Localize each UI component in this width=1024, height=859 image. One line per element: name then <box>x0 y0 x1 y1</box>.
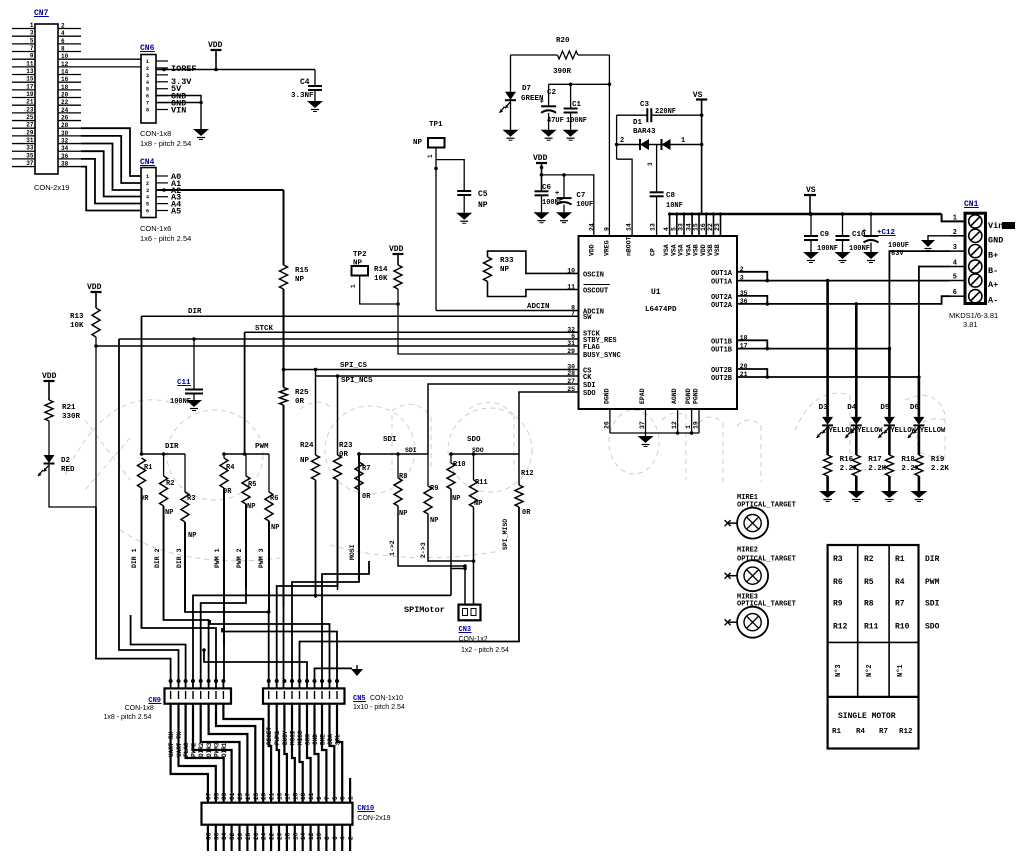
wire CN10 bottom pin 18 <box>286 825 288 851</box>
svg-text:R2: R2 <box>166 480 174 488</box>
svg-text:R24: R24 <box>300 442 314 450</box>
svg-text:35: 35 <box>26 152 34 159</box>
svg-text:38: 38 <box>205 832 212 840</box>
svg-text:19: 19 <box>26 91 34 98</box>
terminal CN1 pin 1 Vin <box>969 215 982 228</box>
svg-text:24: 24 <box>61 107 69 114</box>
svg-text:33: 33 <box>26 145 34 152</box>
svg-text:28: 28 <box>61 122 69 129</box>
wire R11 to CN3 <box>473 507 475 605</box>
svg-text:R11: R11 <box>864 622 879 631</box>
svg-text:PWM: PWM <box>925 578 940 587</box>
svg-text:CON-2x19: CON-2x19 <box>34 183 69 192</box>
wire CN7 pin 9 <box>12 58 35 60</box>
wire STBY_RES net to pin 6 <box>119 338 579 340</box>
svg-text:3: 3 <box>146 73 149 79</box>
svg-text:AGND: AGND <box>671 388 678 404</box>
svg-text:nBOOT: nBOOT <box>626 236 633 256</box>
svg-text:DIR: DIR <box>165 443 179 451</box>
wire DIR2 to CN9 pin6 <box>164 506 209 688</box>
wire CN7 pin 29 <box>12 135 35 137</box>
svg-text:25: 25 <box>253 792 260 800</box>
wire TP1 to C5 <box>436 160 464 191</box>
wire stub to CN5 pin8 <box>322 561 369 688</box>
wire CN7 pin 11 <box>12 66 35 68</box>
svg-text:14: 14 <box>61 69 69 76</box>
svg-text:N°1: N°1 <box>896 664 905 677</box>
svg-text:D1: D1 <box>633 119 643 127</box>
svg-text:OSCIN: OSCIN <box>583 271 604 279</box>
svg-text:10: 10 <box>61 53 69 60</box>
wire CN7 pin 8 <box>58 51 81 53</box>
wire ADCIN vertical <box>435 168 437 310</box>
wire PWM2 to CN9 pin5 <box>201 504 246 688</box>
wire CN10 bottom pin 14 <box>302 825 304 851</box>
wire CN7 pin 5 <box>12 43 35 45</box>
svg-text:3: 3 <box>647 162 654 166</box>
svg-text:NP: NP <box>478 201 488 210</box>
wire CN7 pin 30 <box>58 135 81 137</box>
wire CN7 pin 2 <box>58 28 81 30</box>
junction CN5 pin 2 <box>275 679 279 683</box>
svg-text:SINGLE MOTOR: SINGLE MOTOR <box>838 712 896 721</box>
svg-text:390R: 390R <box>553 68 572 76</box>
svg-text:VDD: VDD <box>87 283 102 292</box>
svg-text:47UF: 47UF <box>547 117 564 125</box>
svg-text:220NF: 220NF <box>655 108 676 116</box>
svg-text:1x8 - pitch 2.54: 1x8 - pitch 2.54 <box>140 139 191 148</box>
ground CN6 GND <box>193 129 209 136</box>
svg-text:R20: R20 <box>556 37 570 45</box>
svg-text:NP: NP <box>500 266 510 274</box>
wire CN10 bottom pin 30 <box>238 825 240 851</box>
junction CN9 pin 2 <box>177 679 181 683</box>
svg-text:DIR: DIR <box>188 308 202 316</box>
junction CN9 pin 8 <box>221 679 225 683</box>
svg-text:NP: NP <box>430 517 438 525</box>
wire CN7 pin 32 <box>58 143 81 145</box>
wire SDI net from pin 27 <box>428 384 579 454</box>
wire CN7 pin 20 <box>58 97 81 99</box>
svg-text:R7: R7 <box>362 465 370 473</box>
svg-text:D6: D6 <box>910 404 920 412</box>
svg-text:6: 6 <box>146 209 149 215</box>
wire CN9 pin 7 to CN10 <box>216 704 255 803</box>
wire SDA route to CN5 pin9 <box>210 620 330 688</box>
svg-text:15: 15 <box>292 792 299 800</box>
svg-text:27: 27 <box>26 122 34 129</box>
wire CN7 pin 17 <box>12 89 35 91</box>
svg-text:R18: R18 <box>901 456 915 464</box>
LED D6 YELLOW <box>918 377 921 417</box>
svg-text:9: 9 <box>30 53 34 60</box>
wire CN7 pin 12 <box>58 66 141 68</box>
svg-text:29: 29 <box>237 792 244 800</box>
wire CN10 bottom pin 22 <box>270 825 272 851</box>
svg-text:TP2: TP2 <box>353 251 367 259</box>
svg-text:A-: A- <box>988 296 998 306</box>
wire CN10 bottom pin 12 <box>310 825 312 851</box>
svg-text:TP1: TP1 <box>429 121 443 129</box>
svg-text:26: 26 <box>61 115 69 122</box>
wire D2 to FLAG <box>49 346 96 507</box>
pin 11 OSCOUT overline <box>584 284 611 286</box>
wire CN9 pin 1 to CN10 <box>171 704 208 803</box>
ground C7 <box>556 212 572 219</box>
wire CN7 to CN4 A3 <box>81 151 141 196</box>
ground CN1 GND terminal <box>928 236 965 240</box>
LED D5 YELLOW <box>888 349 891 417</box>
wire CN5 pin 6 to CN10 <box>307 704 311 803</box>
wire CN10 bottom pin 34 <box>223 825 225 851</box>
svg-text:CON-1x10: CON-1x10 <box>370 695 403 702</box>
svg-text:R23: R23 <box>339 442 353 450</box>
svg-text:VDD: VDD <box>533 154 548 163</box>
svg-text:100NF: 100NF <box>817 245 838 253</box>
svg-text:SDO: SDO <box>925 622 940 631</box>
wire R25 to CN5 pin3 <box>283 405 285 688</box>
svg-text:NP: NP <box>300 457 310 465</box>
wire CN5 pin 4 to CN10 <box>292 704 295 803</box>
svg-text:31: 31 <box>229 792 236 800</box>
svg-text:8: 8 <box>146 108 149 114</box>
ground U1 EPAD <box>645 433 647 436</box>
svg-text:2: 2 <box>348 836 355 840</box>
svg-text:L6474PD: L6474PD <box>645 306 677 314</box>
svg-text:PWM 1: PWM 1 <box>214 548 221 568</box>
svg-text:33: 33 <box>221 792 228 800</box>
svg-text:3: 3 <box>30 30 34 37</box>
svg-text:NP: NP <box>247 503 255 511</box>
svg-text:BAR43: BAR43 <box>633 128 656 136</box>
svg-text:34: 34 <box>61 145 69 152</box>
svg-text:R25: R25 <box>295 389 309 397</box>
svg-text:SDI: SDI <box>405 447 417 454</box>
svg-text:N°3: N°3 <box>834 664 843 677</box>
svg-text:15: 15 <box>26 76 34 83</box>
wire SDO net from pin 25 <box>519 392 579 454</box>
svg-text:OUT1B: OUT1B <box>711 338 733 346</box>
wire CN7 pin 36 <box>58 158 81 160</box>
svg-text:20: 20 <box>61 92 69 99</box>
svg-text:2: 2 <box>146 66 149 72</box>
wire CN7 pin 4 <box>58 35 81 37</box>
svg-text:+: + <box>862 228 866 236</box>
wire OUT1B to B+ <box>737 340 767 348</box>
svg-text:10NF: 10NF <box>666 202 683 210</box>
wire R23 to CN5 pin2 <box>277 480 338 688</box>
wire CN7 pin 25 <box>12 120 35 122</box>
svg-text:3: 3 <box>146 188 149 194</box>
svg-text:CP: CP <box>650 248 657 256</box>
svg-text:SDO: SDO <box>467 436 481 444</box>
wire FLAG net to pin 31 <box>96 345 579 347</box>
svg-text:1: 1 <box>30 22 34 29</box>
svg-text:17: 17 <box>26 83 34 90</box>
junction CN5 pin 3 <box>282 679 286 683</box>
svg-text:5: 5 <box>146 87 149 93</box>
svg-text:VSA: VSA <box>678 244 685 256</box>
svg-text:MKDS1/6-3.81: MKDS1/6-3.81 <box>949 311 998 320</box>
svg-text:B+: B+ <box>988 251 998 261</box>
svg-text:OSCOUT: OSCOUT <box>583 288 608 296</box>
svg-text:2.2K: 2.2K <box>868 465 887 473</box>
wire CN7 pin 1 <box>12 28 35 30</box>
wire CN7 pin 34 <box>58 150 81 152</box>
svg-text:1x2 - pitch 2.54: 1x2 - pitch 2.54 <box>461 647 509 654</box>
svg-text:R21: R21 <box>62 404 76 412</box>
svg-text:7: 7 <box>324 796 331 800</box>
terminal CN1 pin 4 B- <box>969 260 982 273</box>
svg-text:8: 8 <box>324 836 331 840</box>
svg-text:VIN: VIN <box>171 106 186 116</box>
ground C11 <box>186 400 202 407</box>
wire MOSI to CN5 pin4 <box>292 454 359 688</box>
svg-text:VSA: VSA <box>670 244 677 256</box>
svg-text:32: 32 <box>61 138 69 145</box>
svg-text:NP: NP <box>295 276 305 284</box>
wire CN9 pin 6 to CN10 <box>209 704 248 803</box>
junction CN9 pin 5 <box>199 679 203 683</box>
svg-text:12: 12 <box>308 832 315 840</box>
svg-text:DGND: DGND <box>603 388 610 404</box>
wire CN7 pin 7 <box>12 51 35 53</box>
svg-text:R5: R5 <box>864 578 874 587</box>
wire CN9 pin 4 to CN10 <box>193 704 232 803</box>
svg-text:1x6 - pitch 2.54: 1x6 - pitch 2.54 <box>140 234 191 243</box>
wire PWM3 to CN5 pin1 <box>268 521 270 688</box>
svg-text:NP: NP <box>452 495 460 503</box>
svg-text:36: 36 <box>61 153 69 160</box>
svg-text:30: 30 <box>237 832 244 840</box>
svg-text:30: 30 <box>61 130 69 137</box>
junction CN5 pin 10 <box>335 679 339 683</box>
junction CN9 pin 6 <box>207 679 211 683</box>
wire D7 anode <box>510 55 512 92</box>
svg-text:34: 34 <box>221 832 228 840</box>
svg-text:SDI: SDI <box>925 600 940 609</box>
wire SCL route to CN5 pin10 <box>222 628 337 688</box>
svg-text:23: 23 <box>261 792 268 800</box>
wire OUT2A to A- <box>737 296 767 304</box>
svg-text:FLAG: FLAG <box>583 344 600 352</box>
svg-text:OPTICAL_TARGET: OPTICAL_TARGET <box>737 600 796 608</box>
svg-text:32: 32 <box>229 832 236 840</box>
ground D6 <box>910 491 927 498</box>
svg-text:VSB: VSB <box>693 244 700 256</box>
wire A2/R15 vertical <box>283 190 285 265</box>
wire STBY column to CN9 pin2 <box>119 339 179 688</box>
LED D4 YELLOW <box>855 304 858 417</box>
svg-text:7: 7 <box>30 45 34 52</box>
wire crosser to CN5 pin6 <box>204 650 307 688</box>
svg-text:11: 11 <box>308 792 315 800</box>
svg-text:10K: 10K <box>374 275 388 283</box>
wire CN9 pin 3 to CN10 <box>186 704 224 803</box>
wire CN7 to CN4 A5 <box>81 167 141 211</box>
svg-text:2.2K: 2.2K <box>931 465 950 473</box>
svg-text:12: 12 <box>61 61 69 68</box>
svg-text:37: 37 <box>205 792 212 800</box>
svg-text:VSB: VSB <box>707 244 714 256</box>
junction CN5 pin 4 <box>290 679 294 683</box>
svg-text:13: 13 <box>26 68 34 75</box>
svg-text:C8: C8 <box>666 192 676 200</box>
svg-text:D3: D3 <box>819 404 829 412</box>
wire CN9 pin 2 to CN10 <box>179 704 216 803</box>
svg-text:6: 6 <box>332 836 339 840</box>
svg-text:CON-1x8: CON-1x8 <box>140 129 171 138</box>
svg-text:D5: D5 <box>880 404 890 412</box>
wire CN7 pin 19 <box>12 97 35 99</box>
svg-text:2->3: 2->3 <box>420 542 427 558</box>
svg-text:25: 25 <box>26 114 34 121</box>
svg-text:VS: VS <box>806 186 816 195</box>
svg-text:R15: R15 <box>295 267 309 275</box>
svg-text:R13: R13 <box>70 313 84 321</box>
wire CN5 pin 10 to CN10 <box>337 704 342 803</box>
svg-text:21: 21 <box>269 792 276 800</box>
svg-text:SPIMotor: SPIMotor <box>404 605 445 615</box>
svg-text:PWM: PWM <box>255 443 269 451</box>
wire CN7 pin 38 <box>58 166 81 168</box>
wire CN10 pin 1 stub <box>349 778 351 803</box>
ground C4 <box>307 101 323 108</box>
svg-text:37: 37 <box>26 160 34 167</box>
svg-text:11: 11 <box>567 284 575 291</box>
svg-text:16: 16 <box>292 832 299 840</box>
wire CN7 pin 33 <box>12 150 35 152</box>
terminal CN1 pin 5 A+ <box>969 274 982 287</box>
svg-text:GND: GND <box>988 235 1003 245</box>
svg-text:7: 7 <box>146 101 149 107</box>
svg-text:D7: D7 <box>522 85 531 93</box>
wire CN10 bottom pin 16 <box>294 825 296 851</box>
svg-text:1: 1 <box>953 214 957 222</box>
ground D3 <box>819 491 836 498</box>
svg-text:0R: 0R <box>522 509 531 517</box>
svg-text:16: 16 <box>61 76 69 83</box>
svg-text:2: 2 <box>146 181 149 187</box>
junction CN5 pin 7 <box>313 679 317 683</box>
wire CN7 pin 21 <box>12 104 35 106</box>
wire CN5 pin 5 to CN10 <box>300 704 303 803</box>
svg-text:31: 31 <box>26 137 34 144</box>
svg-text:5: 5 <box>332 796 339 800</box>
svg-text:4: 4 <box>340 836 347 840</box>
ground C6 <box>534 212 550 219</box>
svg-text:C9: C9 <box>820 231 830 239</box>
ground C12 <box>863 252 879 259</box>
svg-text:+: + <box>555 190 559 198</box>
wire R24 to CN9 pin4 <box>193 595 451 688</box>
svg-text:CON-1x8: CON-1x8 <box>125 705 154 712</box>
wire D1 centre tap to C8 <box>656 145 658 193</box>
wire CN7 pin 16 <box>58 81 81 83</box>
svg-text:24: 24 <box>589 223 596 231</box>
wire CN7 pin 22 <box>58 104 81 106</box>
svg-text:13: 13 <box>650 223 657 231</box>
svg-text:SPI_MISO: SPI_MISO <box>502 519 509 550</box>
svg-text:R7: R7 <box>879 728 888 736</box>
wire CN10 bottom pin 38 <box>207 825 209 851</box>
svg-text:10UF: 10UF <box>576 201 593 209</box>
wire CN10 bottom pin 6 <box>333 825 335 851</box>
junction CN9 pin 4 <box>191 679 195 683</box>
wire CN5 pin 2 to CN10 <box>277 704 279 803</box>
junction CN9 pin 7 <box>214 679 218 683</box>
svg-text:23: 23 <box>26 106 34 113</box>
svg-text:VSB: VSB <box>714 244 721 256</box>
junction CN5 pin 9 <box>328 679 332 683</box>
svg-text:1: 1 <box>427 154 434 158</box>
svg-text:SDI: SDI <box>583 382 596 390</box>
svg-text:6: 6 <box>61 38 65 45</box>
svg-text:R33: R33 <box>500 257 514 265</box>
svg-text:CK: CK <box>583 374 592 382</box>
svg-text:CON-1x6: CON-1x6 <box>140 224 171 233</box>
decorative watermark arcs (not labelled further) <box>65 393 945 561</box>
wire CN7 to CN4 A2 <box>81 144 141 191</box>
wire CN7 pin 23 <box>12 112 35 114</box>
svg-text:38: 38 <box>61 161 69 168</box>
svg-text:3.81: 3.81 <box>963 320 978 329</box>
svg-text:NP: NP <box>165 509 173 517</box>
wire CN10 bottom pin 26 <box>254 825 256 851</box>
svg-text:R3: R3 <box>833 555 843 564</box>
svg-text:YELLOW: YELLOW <box>829 427 855 435</box>
terminal CN1 pin 6 A- <box>969 290 982 303</box>
wire CN7 pin 28 <box>58 127 81 129</box>
op-amp U1 L6474PD stepper driver IC <box>579 236 738 409</box>
svg-text:NP: NP <box>188 532 196 540</box>
svg-text:SPI_NCS: SPI_NCS <box>341 377 373 385</box>
node Vin marker <box>1002 222 1015 229</box>
svg-text:1x8 - pitch 2.54: 1x8 - pitch 2.54 <box>104 714 152 721</box>
wire VREG node <box>608 55 610 84</box>
wire CN10 bottom pin 2 <box>349 825 351 851</box>
svg-text:PWM 3: PWM 3 <box>258 548 265 568</box>
svg-text:14: 14 <box>300 832 307 840</box>
wire CN5 pin 7 to CN10 <box>315 704 319 803</box>
wire CN10 bottom pin 20 <box>278 825 280 851</box>
svg-text:26: 26 <box>253 832 260 840</box>
svg-text:PWM 2: PWM 2 <box>236 548 243 568</box>
wire CN10 bottom pin 4 <box>341 825 343 851</box>
svg-text:R12: R12 <box>521 470 534 478</box>
junction CN5 pin 6 <box>305 679 309 683</box>
svg-text:A5: A5 <box>171 207 181 217</box>
svg-text:Vin: Vin <box>988 221 1003 231</box>
svg-text:2: 2 <box>61 23 65 30</box>
connector CN10 CON-2x19 <box>202 803 353 825</box>
wire CN9 pin 5 to CN10 <box>201 704 240 803</box>
junction CN5 pin 5 <box>298 679 302 683</box>
svg-text:OUT2A: OUT2A <box>711 302 733 310</box>
svg-text:13: 13 <box>300 792 307 800</box>
svg-text:R4: R4 <box>895 578 905 587</box>
wire CN7 pin 37 <box>12 166 35 168</box>
wire FLAG/D2 column to CN9 pin1 <box>96 507 171 688</box>
wire PWM1 to CN9 pin8 <box>222 488 225 688</box>
svg-text:OUT2A: OUT2A <box>711 294 733 302</box>
svg-text:4: 4 <box>146 80 149 86</box>
svg-text:R3: R3 <box>187 495 195 503</box>
svg-text:100NF: 100NF <box>849 245 870 253</box>
svg-text:17: 17 <box>284 792 291 800</box>
svg-text:22: 22 <box>61 99 69 106</box>
wire CN5 pin 9 to CN10 <box>330 704 335 803</box>
